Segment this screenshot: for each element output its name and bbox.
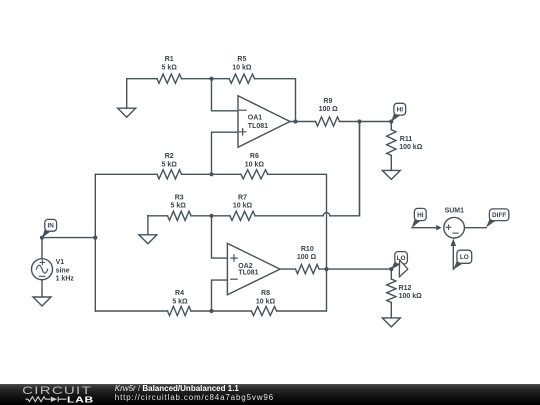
- svg-text:DIFF: DIFF: [492, 212, 506, 219]
- svg-text:LO: LO: [460, 254, 469, 261]
- svg-text:100 Ω: 100 Ω: [319, 106, 339, 113]
- svg-text:IN: IN: [47, 223, 54, 230]
- svg-text:LAB: LAB: [67, 396, 94, 405]
- svg-text:R5: R5: [237, 56, 246, 63]
- svg-text:R6: R6: [250, 153, 259, 160]
- svg-text:R8: R8: [261, 290, 270, 297]
- svg-text:TL081: TL081: [238, 270, 258, 277]
- svg-text:HI: HI: [397, 107, 404, 114]
- svg-text:CIRCUIT: CIRCUIT: [22, 384, 92, 397]
- svg-text:10 kΩ: 10 kΩ: [245, 162, 265, 169]
- svg-text:R12: R12: [399, 285, 412, 292]
- svg-text:R10: R10: [301, 246, 314, 253]
- svg-text:5 kΩ: 5 kΩ: [162, 162, 178, 169]
- svg-text:V1: V1: [56, 259, 65, 266]
- svg-text:R3: R3: [175, 194, 184, 201]
- svg-text:100 Ω: 100 Ω: [297, 254, 317, 261]
- svg-text:10 kΩ: 10 kΩ: [256, 299, 276, 306]
- svg-text:sine: sine: [56, 268, 70, 275]
- svg-text:10 kΩ: 10 kΩ: [232, 65, 252, 72]
- svg-text:5 kΩ: 5 kΩ: [171, 202, 187, 209]
- svg-text:5 kΩ: 5 kΩ: [162, 65, 178, 72]
- svg-text:5 kΩ: 5 kΩ: [172, 299, 188, 306]
- svg-text:R1: R1: [165, 56, 174, 63]
- svg-text:TL081: TL081: [248, 123, 268, 130]
- svg-text:Krw5r / Balanced/Unbalanced 1.: Krw5r / Balanced/Unbalanced 1.1: [115, 384, 240, 393]
- svg-text:100 kΩ: 100 kΩ: [399, 293, 423, 300]
- svg-text:R2: R2: [165, 153, 174, 160]
- svg-text:R7: R7: [238, 194, 247, 201]
- svg-text:R11: R11: [400, 136, 413, 143]
- svg-text:http://circuitlab.com/c84a7abg: http://circuitlab.com/c84a7abg5vw96: [115, 393, 274, 402]
- svg-text:R4: R4: [175, 290, 184, 297]
- svg-text:100 kΩ: 100 kΩ: [399, 144, 423, 151]
- svg-text:OA1: OA1: [248, 114, 262, 121]
- svg-text:SUM1: SUM1: [445, 207, 465, 214]
- svg-text:1 kHz: 1 kHz: [56, 276, 75, 283]
- svg-text:HI: HI: [417, 212, 424, 219]
- svg-text:10 kΩ: 10 kΩ: [233, 202, 253, 209]
- svg-text:R9: R9: [323, 98, 332, 105]
